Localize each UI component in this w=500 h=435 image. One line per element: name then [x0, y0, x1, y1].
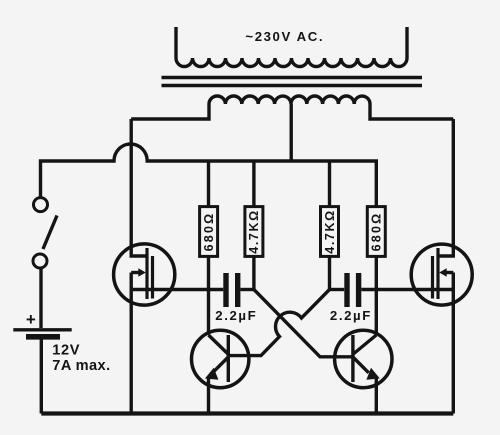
wire: primary center tap down to +12V rail — [290, 104, 293, 161]
svg-text:2.2µF: 2.2µF — [215, 308, 257, 323]
wire: drain lead of Q1, primary left end down through hop — [131, 119, 147, 256]
switch S1 lower contact — [33, 254, 47, 268]
transistor Q4 collector diagonal — [353, 335, 376, 354]
cross-coupling wire with hop: node R3/C2 down to Q3 base — [228, 290, 329, 356]
svg-text:~230V AC.: ~230V AC. — [245, 29, 324, 44]
MOSFET Q1 source arrow — [131, 271, 141, 274]
transistor Q3 emitter diagonal — [213, 357, 229, 373]
wire: switch to battery — [39, 268, 42, 328]
resistor R2 4.7K ohm — [245, 207, 263, 257]
battery B1 positive plate — [13, 328, 71, 331]
transistor Q3 emitter arrowhead — [207, 369, 218, 379]
transistor Q4 base bar — [351, 335, 354, 382]
MOSFET Q1 gate bar — [151, 256, 154, 299]
transistor Q4 emitter diagonal — [353, 357, 369, 373]
svg-text:12V: 12V — [52, 343, 80, 359]
resistor R4 680 ohm lead — [375, 256, 378, 335]
wire: C2 left plate to node with R3 — [330, 288, 345, 291]
wire: battery negative down to ground rail — [40, 340, 43, 414]
transistor Q3 collector diagonal — [209, 335, 229, 354]
resistor R3 4.7K ohm — [321, 207, 339, 257]
ground rail wire — [41, 411, 453, 415]
wire: Q2 gate/source node to capacitor C2 right plate — [361, 288, 453, 291]
resistor R4 680 ohm — [367, 207, 385, 257]
MOSFET Q2 channel bar — [436, 248, 439, 299]
cross-coupling wire: node R2/C1 down to Q4 base — [254, 290, 353, 357]
MOSFET Q2 source arrow — [444, 271, 453, 274]
transformer core — [162, 78, 423, 86]
capacitor C1 2.2uF plates — [226, 273, 238, 307]
svg-text:680Ω: 680Ω — [202, 212, 216, 252]
wire: drain lead of Q2, primary right end down — [438, 119, 453, 256]
resistor R2 4.7K ohm lead — [252, 161, 255, 290]
wire: +12V rail with hop over drain wire, from switch to R4 — [41, 144, 377, 207]
resistor R3 4.7K ohm lead — [328, 161, 331, 290]
svg-text:2.2µF: 2.2µF — [330, 308, 372, 323]
transistor Q4 body — [335, 330, 392, 387]
MOSFET Q1 body — [114, 244, 175, 305]
wire: Q1 gate/source node to capacitor C1 left plate — [131, 288, 223, 291]
svg-text:7A max.: 7A max. — [52, 358, 110, 374]
MOSFET Q1 channel bar — [145, 248, 148, 299]
MOSFET Q1 source lead down to rail — [129, 273, 132, 414]
svg-text:+: + — [26, 310, 36, 329]
resistor R1 680 ohm — [200, 207, 218, 257]
MOSFET Q2 gate bar — [431, 256, 434, 299]
switch S1 upper contact — [34, 198, 48, 212]
svg-text:4.7KΩ: 4.7KΩ — [247, 209, 261, 253]
switch S1 lever — [43, 216, 57, 250]
wire: C1 right plate to node with R2 — [240, 288, 254, 291]
transistor Q4 emitter lead — [375, 378, 378, 414]
transistor Q3 body — [192, 330, 249, 387]
svg-text:4.7KΩ: 4.7KΩ — [323, 209, 337, 253]
transformer T1 secondary winding — [176, 27, 407, 67]
battery B1 negative plate — [26, 334, 60, 340]
transistor Q4 emitter arrowhead — [368, 369, 379, 379]
MOSFET Q2 body — [411, 244, 472, 305]
resistor R1 680 ohm lead — [207, 161, 210, 335]
svg-text:680Ω: 680Ω — [370, 212, 384, 252]
transistor Q3 base bar — [227, 335, 230, 382]
MOSFET Q2 source lead down to rail — [452, 273, 455, 414]
capacitor C2 2.2uF plates — [347, 273, 359, 307]
transformer T1 primary winding — [131, 96, 453, 119]
transistor Q3 emitter lead — [207, 378, 210, 414]
